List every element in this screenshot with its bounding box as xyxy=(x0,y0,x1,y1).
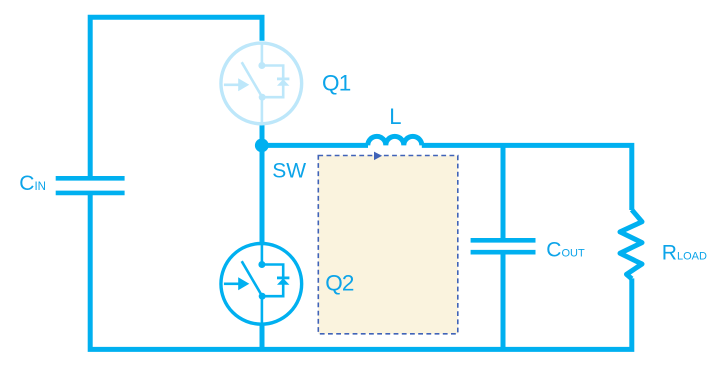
wire COUT branch lower xyxy=(501,254,506,349)
node SW junction dot xyxy=(255,139,269,153)
svg-text:RLOAD: RLOAD xyxy=(662,242,707,265)
capacitor CIN plates xyxy=(56,178,125,193)
current direction arrow xyxy=(374,152,382,161)
inductor L xyxy=(368,136,422,145)
Q1 body-diode triangle xyxy=(277,79,289,86)
capacitor COUT plates xyxy=(471,240,536,252)
Q2 internal drain lead xyxy=(261,244,264,265)
wire SW node to inductor xyxy=(262,143,368,148)
current-loop highlight box xyxy=(318,156,458,334)
wire COUT branch upper xyxy=(501,143,506,238)
Q1 source dot xyxy=(259,94,266,101)
Q1 gate arrowhead xyxy=(238,78,249,91)
wire Q2 source to ground rail xyxy=(260,324,265,349)
svg-text:SW: SW xyxy=(272,159,306,182)
Q1 internal drain lead xyxy=(261,44,264,66)
svg-text:CIN: CIN xyxy=(19,172,46,195)
Q2 body-diode cathode bar xyxy=(277,276,289,279)
transistor Q1 (faded high-side switch) xyxy=(221,43,302,124)
Q2 body circle xyxy=(221,244,302,325)
svg-text:Q2: Q2 xyxy=(325,271,354,296)
Q2 body-diode triangle xyxy=(277,278,289,285)
Q2 gate arrowhead xyxy=(238,277,249,290)
transistor Q2 (low-side switch) xyxy=(221,244,302,325)
Q2 switch blade xyxy=(242,261,263,296)
wire Q1 drain to SW to Q2 drain xyxy=(260,125,265,244)
Q2 drain dot xyxy=(258,261,265,268)
Q1 body-diode bracket xyxy=(262,66,283,98)
wire top rail (Vin rail: left rail upper + top wire + drop to Q1) xyxy=(90,17,262,178)
Q1 drain dot xyxy=(258,62,265,69)
Q1 internal source lead xyxy=(261,97,264,124)
Q2 gate arrow shaft xyxy=(224,282,239,285)
Q2 body-diode bracket xyxy=(262,265,283,297)
svg-text:COUT: COUT xyxy=(546,239,585,262)
Q2 internal source lead xyxy=(261,296,264,324)
wire inductor to output node to right rail xyxy=(422,145,632,210)
svg-text:L: L xyxy=(389,104,401,129)
svg-text:Q1: Q1 xyxy=(322,71,351,96)
Q1 body circle xyxy=(221,43,302,124)
wire ground rail (left rail lower + bottom wire + right rail lower) xyxy=(90,193,632,350)
Q2 source dot xyxy=(259,293,266,300)
Q1 switch blade xyxy=(242,62,263,97)
Q1 gate arrow shaft xyxy=(224,84,239,87)
resistor RLOAD zigzag xyxy=(620,210,642,279)
Q1 body-diode cathode bar xyxy=(277,78,289,81)
